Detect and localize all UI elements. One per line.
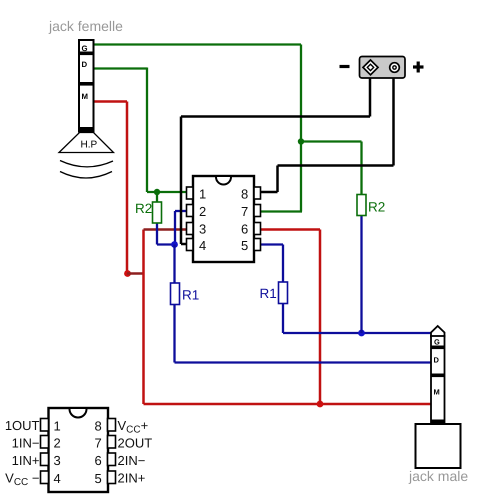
- wire black pin4 horizontal: [181, 243, 187, 246]
- svg-text:R1: R1: [182, 288, 199, 303]
- resistor R2 right: [357, 195, 366, 216]
- U1 pin 7: [254, 205, 261, 217]
- svg-text:D: D: [434, 356, 440, 365]
- svg-text:2IN+: 2IN+: [118, 471, 146, 486]
- battery BT1 9V clip: [360, 57, 406, 79]
- svg-text:M: M: [434, 388, 440, 397]
- svg-text:8: 8: [95, 419, 102, 434]
- wire red M net horizontal from jack femelle M: [94, 100, 128, 103]
- wire green stub R2 left top: [156, 192, 158, 202]
- wire black battery plus vertical: [392, 78, 395, 166]
- junction blue under R2 right: [358, 330, 365, 337]
- wire black left vertical to pin 4: [180, 117, 183, 245]
- wire blue R1 right bottom vertical: [282, 304, 284, 334]
- battery plus label: [413, 65, 424, 68]
- wire green D net vertical: [146, 68, 148, 193]
- svg-text:3: 3: [199, 222, 206, 237]
- svg-text:R2: R2: [368, 200, 385, 215]
- wire red link horizontal: [127, 272, 144, 275]
- junction green D-net at R2 left top: [154, 189, 160, 195]
- svg-text:2IN−: 2IN−: [118, 453, 146, 468]
- U1 pin 8: [254, 187, 261, 199]
- op-amp U1 DIP-8 body: [193, 176, 254, 262]
- wire green D net horizontal from jack femelle D: [94, 67, 148, 69]
- svg-text:7: 7: [241, 204, 248, 219]
- wire red pin6 vertical down: [319, 230, 322, 405]
- wire blue R2 right bottom vertical: [360, 216, 362, 334]
- svg-text:G: G: [82, 44, 88, 53]
- U2 pin 5: [108, 471, 116, 484]
- wire green G net horizontal from jack femelle G: [94, 43, 302, 45]
- connector J2 jack male: [416, 326, 461, 468]
- junction red bottom: [317, 401, 324, 408]
- wire blue pin2 vertical down: [174, 211, 176, 245]
- svg-text:7: 7: [95, 436, 102, 451]
- svg-text:G: G: [434, 338, 440, 347]
- svg-text:2: 2: [54, 436, 61, 451]
- svg-text:2OUT: 2OUT: [118, 436, 153, 451]
- wire green D net horizontal to pin 1: [147, 191, 187, 193]
- wire red M net vertical down: [126, 102, 129, 274]
- U2 pin 8: [108, 419, 116, 432]
- svg-text:1IN−: 1IN−: [12, 436, 40, 451]
- wire blue horizontal to jack male G: [283, 332, 432, 334]
- svg-text:R1: R1: [260, 286, 277, 301]
- resistor R2 left: [153, 202, 162, 223]
- U2 pin 1: [41, 419, 49, 432]
- svg-text:H.P: H.P: [81, 140, 98, 151]
- wire blue pin2 horizontal: [175, 210, 187, 212]
- wire blue vertical to R1 left: [173, 245, 175, 284]
- wire blue R2 left bottom vertical: [156, 223, 158, 245]
- svg-text:M: M: [82, 92, 89, 101]
- wire green branch vertical to R2 right top: [360, 142, 362, 195]
- wire red pin6 horizontal: [260, 228, 320, 231]
- U1 pin 2: [187, 205, 194, 217]
- svg-text:jack male: jack male: [408, 468, 468, 484]
- svg-text:D: D: [82, 60, 88, 69]
- svg-text:2: 2: [199, 204, 206, 219]
- svg-text:5: 5: [241, 238, 248, 253]
- wire blue pin5 horizontal: [260, 243, 283, 245]
- svg-text:R2: R2: [135, 201, 152, 216]
- op-amp U2 pinout DIP-8 body: [49, 408, 109, 492]
- svg-text:6: 6: [241, 222, 248, 237]
- junction red M-net corner: [124, 270, 131, 277]
- svg-text:4: 4: [54, 471, 61, 486]
- battery minus label: [340, 65, 350, 68]
- svg-text:jack femelle: jack femelle: [48, 18, 123, 34]
- svg-text:3: 3: [54, 453, 61, 468]
- svg-text:5: 5: [95, 471, 102, 486]
- U1 pin 6: [254, 223, 261, 235]
- wire black mid horizontal: [278, 164, 394, 167]
- U2 pin 6: [108, 453, 116, 466]
- wire blue bottom horizontal to jack male D: [175, 361, 432, 363]
- svg-text:1: 1: [54, 419, 61, 434]
- junction green G-net: [298, 138, 304, 144]
- speaker H.P: [59, 133, 114, 179]
- wire blue pin5 vertical to R1 right: [282, 245, 284, 283]
- wire green G net vertical down to pin 7 row: [300, 45, 302, 212]
- connector J1 jack femelle: [79, 40, 94, 132]
- svg-text:1IN+: 1IN+: [12, 453, 40, 468]
- U1 pin 5: [254, 239, 261, 251]
- U2 pin 3: [41, 453, 49, 466]
- wire green pin7 horizontal: [260, 210, 302, 212]
- U1 pin 1: [187, 187, 194, 199]
- wire blue R1 left bottom vertical: [173, 304, 175, 363]
- wire black battery minus horizontal: [181, 115, 370, 118]
- wire green branch horizontal to R2 right: [301, 140, 362, 142]
- U1 pin 4: [187, 239, 194, 251]
- svg-text:8: 8: [241, 187, 248, 202]
- wire black pin8 horizontal: [260, 191, 278, 194]
- wire red pin3 horizontal: [144, 228, 188, 231]
- wire black battery minus vertical: [369, 78, 372, 117]
- junction blue at R1 left top net: [171, 241, 178, 248]
- wire red bottom horizontal to jack male M: [144, 403, 432, 406]
- svg-text:1: 1: [199, 187, 206, 202]
- wire red main vertical: [142, 230, 145, 405]
- wire black mid vertical: [276, 166, 279, 193]
- svg-text:4: 4: [199, 238, 206, 253]
- resistor R1 left: [171, 283, 180, 305]
- U2 pin 7: [108, 436, 116, 449]
- U2 pin 2: [41, 436, 49, 449]
- U2 pin 4: [41, 471, 49, 484]
- wire blue R2 left bottom horizontal: [157, 243, 175, 245]
- svg-text:6: 6: [95, 453, 102, 468]
- svg-text:1OUT: 1OUT: [5, 418, 40, 433]
- U1 pin 3: [187, 223, 194, 235]
- resistor R1 right: [279, 282, 288, 304]
